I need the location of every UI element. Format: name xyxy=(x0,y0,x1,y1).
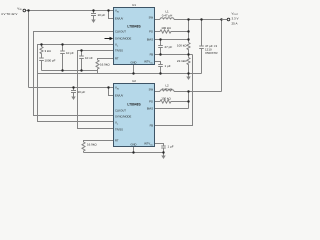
svg-text:1 µF: 1 µF xyxy=(168,144,174,148)
wire PG U2 row xyxy=(155,101,161,103)
svg-text:10 nF: 10 nF xyxy=(85,56,93,60)
svg-text:0.47 µH: 0.47 µH xyxy=(162,87,173,91)
wire EN/UV U2 stub xyxy=(109,88,114,96)
wire FB tie U1-U2 xyxy=(155,55,193,126)
svg-text:25 A: 25 A xyxy=(232,21,238,25)
wire GND stub U2 xyxy=(133,147,135,153)
svg-text:X5R/X7R: X5R/X7R xyxy=(205,51,218,55)
wire INTVCC U2 xyxy=(155,144,164,147)
svg-text:GND: GND xyxy=(131,142,137,146)
svg-text:16.9kΩ: 16.9kΩ xyxy=(87,142,97,146)
svg-text:10 µF: 10 µF xyxy=(78,90,86,94)
svg-text:16.9kΩ: 16.9kΩ xyxy=(100,62,110,66)
capacitor C6 27pF xyxy=(160,40,162,46)
svg-text:FB: FB xyxy=(150,124,154,128)
capacitor C4 10pF xyxy=(62,45,64,52)
resistor R4 100k FB top xyxy=(187,43,190,51)
svg-text:0.47 µH: 0.47 µH xyxy=(162,13,173,17)
svg-text:BIAS: BIAS xyxy=(147,38,153,42)
wire PG/BIAS U2 vertical xyxy=(188,92,190,109)
capacitor C8 47uF x3 output xyxy=(199,45,204,47)
svg-text:SW: SW xyxy=(149,87,154,91)
wire SW U1 output row xyxy=(155,19,161,21)
svg-text:10 pF: 10 pF xyxy=(66,51,74,55)
svg-text:22.1kΩ: 22.1kΩ xyxy=(177,59,187,63)
svg-text:100 kΩ: 100 kΩ xyxy=(161,96,171,100)
wire VIN left vertical xyxy=(28,11,30,88)
wire PG U1 row xyxy=(155,31,161,33)
wire comp ground bus xyxy=(42,71,98,74)
wire EN/UV U1 stub xyxy=(109,11,114,19)
wire VC tie U1-U2 xyxy=(38,45,114,122)
resistor R2 16.9k RT U1 xyxy=(96,60,99,71)
svg-text:U2: U2 xyxy=(132,79,136,83)
ground rail U1 arrow xyxy=(186,74,190,81)
svg-text:3 kΩ: 3 kΩ xyxy=(45,49,52,53)
svg-text:RT: RT xyxy=(115,57,119,61)
capacitor C5 10nF TR/SS xyxy=(81,51,83,57)
svg-text:1 µF: 1 µF xyxy=(165,64,171,68)
svg-text:FB: FB xyxy=(150,53,154,57)
svg-text:GND: GND xyxy=(131,60,137,64)
wire CLKOUT U1 to SYNC U2 xyxy=(34,32,114,116)
svg-text:PG: PG xyxy=(149,100,153,104)
svg-text:SW: SW xyxy=(149,15,154,19)
wire FB U1 row xyxy=(155,54,193,56)
wire VIN top rail xyxy=(26,10,114,12)
wire TR/SS tie U1-U2 xyxy=(78,51,114,129)
wire VOUT divider vertical xyxy=(188,20,190,43)
ground input cap U1 xyxy=(91,16,95,24)
resistor R6 100k PG U2 xyxy=(160,100,172,103)
svg-text:U1: U1 xyxy=(132,3,136,7)
wire RT U1 xyxy=(98,59,114,61)
capacitor C3 1000pF comp xyxy=(39,57,44,59)
svg-text:SYNC/MODE: SYNC/MODE xyxy=(115,115,131,119)
svg-text:TR/SS: TR/SS xyxy=(115,128,123,132)
svg-text:100 kΩ: 100 kΩ xyxy=(161,26,171,30)
wire BIAS U2 row xyxy=(155,108,189,110)
inductor L1 0.47uH xyxy=(160,18,174,20)
wire VIN2 rail xyxy=(29,87,114,89)
svg-text:TR/SS: TR/SS xyxy=(115,49,123,53)
capacitor C2 10uF input U2 xyxy=(73,88,75,91)
terminal VOUT xyxy=(222,18,230,21)
wire ground rail U2 xyxy=(84,152,164,154)
svg-text:100 kΩ: 100 kΩ xyxy=(177,43,187,47)
capacitor C1 10uF input U1 xyxy=(93,11,95,14)
capacitor C7 1uF INTVCC U1 xyxy=(158,64,163,66)
svg-text:EN/UV: EN/UV xyxy=(115,17,123,21)
svg-text:CLKOUT: CLKOUT xyxy=(115,30,126,34)
svg-text:27 pF: 27 pF xyxy=(165,45,173,49)
op-amp U1 regulator LT8648S xyxy=(114,8,155,65)
svg-text:BIAS: BIAS xyxy=(147,107,153,111)
svg-text:LT8648S: LT8648S xyxy=(127,102,141,106)
svg-text:LT8648S: LT8648S xyxy=(127,24,141,28)
svg-text:4 V TO 42 V: 4 V TO 42 V xyxy=(1,12,17,16)
terminal VIN xyxy=(23,9,26,12)
wire INTVCC U1 xyxy=(155,62,161,65)
wire BIAS U1 row xyxy=(155,39,189,41)
wire output cap branch xyxy=(201,20,203,47)
capacitor C9 1uF INTVCC U2 xyxy=(161,145,166,147)
resistor R3 100k PG U1 xyxy=(160,30,172,33)
resistor R7 16.9k RT U2 xyxy=(82,142,85,151)
inductor L2 0.47uH xyxy=(160,90,174,92)
ground rail U2 arrow xyxy=(161,153,165,160)
svg-text:EN/UV: EN/UV xyxy=(115,94,123,98)
resistor R1 3k comp xyxy=(40,45,43,59)
svg-text:SYNC/MODE: SYNC/MODE xyxy=(115,37,131,41)
wire SW U2 row xyxy=(155,91,161,93)
wire VOUT riser from SW U2 xyxy=(221,20,223,92)
op-amp U2 regulator LT8648S xyxy=(114,84,155,147)
svg-text:3.3 V: 3.3 V xyxy=(232,16,239,20)
wire RT U2 loop xyxy=(84,141,114,143)
svg-text:10 µF: 10 µF xyxy=(98,13,106,17)
svg-text:1000 pF: 1000 pF xyxy=(45,58,56,62)
node junction dots xyxy=(27,9,222,153)
wire ground rail U1 xyxy=(38,73,202,75)
svg-text:PG: PG xyxy=(149,30,153,34)
sync arrow into U1 xyxy=(105,37,114,41)
wire GND stub U1 xyxy=(133,65,135,74)
resistor R5 22.1k FB bottom xyxy=(187,58,190,66)
svg-text:RT: RT xyxy=(115,139,119,143)
svg-text:CLKOUT: CLKOUT xyxy=(115,109,126,113)
ground input cap U2 xyxy=(71,93,75,101)
